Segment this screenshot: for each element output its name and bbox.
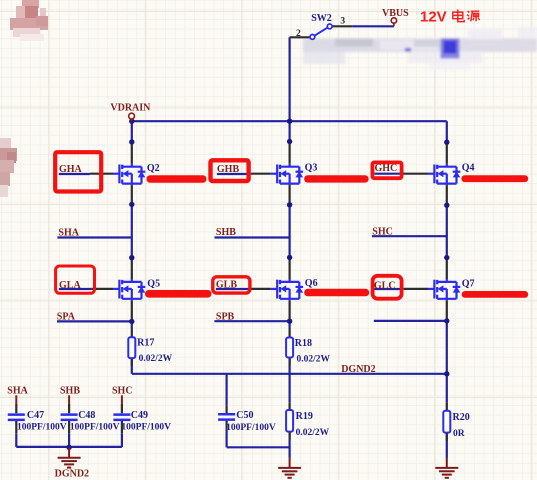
resistor R17 — [128, 337, 135, 358]
svg-text:R20: R20 — [453, 412, 470, 423]
svg-text:GHA: GHA — [59, 164, 83, 175]
svg-text:DGND2: DGND2 — [55, 469, 89, 480]
junction Q2 source — [129, 202, 134, 207]
svg-text:12V: 12V — [420, 9, 447, 26]
wire phase B mid — [289, 205, 291, 258]
port stub SHA (C47) — [15, 395, 17, 403]
wire SHB — [215, 236, 290, 238]
wire phase A column upper — [131, 121, 133, 142]
svg-text:100PF/100V: 100PF/100V — [17, 422, 67, 432]
transistor Q6 — [271, 279, 303, 300]
pin R18 top/bottom — [289, 330, 291, 366]
wire VDRAIN bus — [132, 120, 447, 122]
svg-text:GLC: GLC — [374, 281, 396, 292]
capacitor C47 — [8, 415, 25, 420]
pin SW2-2 — [290, 36, 311, 38]
transistor Q3 — [271, 164, 303, 185]
svg-text:SHA: SHA — [7, 386, 28, 397]
pin Q2 gate — [90, 173, 113, 175]
wire C50 bottom — [227, 428, 290, 447]
wire phase B lower — [289, 321, 291, 440]
transistor Q2 — [113, 164, 145, 185]
svg-text:Q6: Q6 — [305, 278, 318, 289]
junction Q7 drain — [444, 255, 449, 260]
pin Q3 gate — [251, 173, 271, 175]
svg-text:R17: R17 — [137, 338, 154, 349]
wire SHA — [57, 236, 131, 238]
pin Q5 source — [131, 300, 133, 321]
pin C50 top/bottom — [226, 406, 228, 429]
junction Q6 drain — [287, 255, 292, 260]
junction SW2-bus — [287, 119, 292, 124]
wire phase A mid — [131, 204, 133, 257]
svg-text:Q2: Q2 — [147, 163, 160, 174]
redaction band top right — [303, 27, 537, 70]
svg-text:100PF/100V: 100PF/100V — [226, 423, 276, 433]
wire node SPC — [374, 320, 447, 322]
pin Q4 drain — [446, 142, 448, 164]
svg-text:C50: C50 — [236, 410, 253, 421]
transistor Q4 — [428, 164, 460, 185]
switch SW2 — [310, 24, 332, 39]
svg-text:100PF/100V: 100PF/100V — [121, 422, 171, 432]
pin Q7 drain — [446, 258, 448, 279]
svg-text:Q7: Q7 — [462, 278, 475, 289]
svg-text:Q4: Q4 — [462, 162, 475, 173]
svg-text:C49: C49 — [131, 410, 148, 421]
wire GHB label — [217, 173, 251, 175]
svg-text:0.02/2W: 0.02/2W — [296, 428, 330, 438]
highlight bar GHA-GHB row — [147, 175, 207, 183]
highlight bar GLB-GLC row — [304, 289, 369, 297]
pin C47 top/bottom — [15, 404, 17, 434]
pin R20 top/bottom — [446, 402, 448, 440]
wire DGND2 bus — [132, 373, 447, 375]
wire GHC label — [374, 173, 403, 175]
pin Q3 drain — [289, 142, 291, 164]
pin R19 top/bottom — [289, 402, 291, 439]
ground under R20 — [435, 458, 458, 478]
pin Q6 source — [289, 300, 291, 321]
power port VDRAIN — [129, 113, 135, 121]
junction VDRAIN-busA — [129, 119, 134, 124]
wire switch to VBUS — [352, 25, 394, 27]
wire GLC label — [374, 288, 404, 290]
power port VBUS — [391, 18, 396, 27]
annotation 12V power — [420, 9, 480, 26]
svg-text:SHC: SHC — [372, 227, 393, 238]
pin R17 top/bottom — [131, 330, 133, 366]
wire C48 bottom — [68, 433, 70, 447]
highlight box GLC — [373, 276, 402, 299]
pin Q4 source — [446, 185, 448, 205]
junction DGND2 R20 — [444, 371, 449, 376]
port stub SHC (C49) — [121, 395, 123, 403]
svg-text:VBUS: VBUS — [382, 8, 409, 19]
pin C49 top/bottom — [121, 404, 123, 434]
svg-text:Q3: Q3 — [305, 163, 318, 174]
svg-text:C48: C48 — [78, 410, 95, 421]
wire R20 to ground — [446, 440, 448, 458]
svg-text:R19: R19 — [296, 411, 313, 422]
svg-text:SHB: SHB — [216, 227, 236, 238]
svg-text:SPA: SPA — [57, 311, 76, 322]
wire C49 bottom — [121, 433, 123, 447]
svg-text:100PF/100V: 100PF/100V — [70, 422, 120, 432]
svg-text:2: 2 — [296, 29, 301, 39]
wire GLB label — [216, 288, 250, 290]
wire phase C lower — [446, 321, 448, 441]
pin SW2-3 — [332, 25, 352, 27]
capacitor C48 — [61, 415, 78, 420]
junction Q4 drain — [444, 140, 449, 145]
pin Q6 drain — [289, 258, 291, 280]
pin C48 top/bottom — [68, 404, 70, 434]
highlight box GHA — [55, 152, 101, 191]
svg-text:SW2: SW2 — [311, 13, 332, 24]
junction Q7 source — [444, 318, 449, 323]
svg-text:SPB: SPB — [216, 311, 235, 322]
wire SW2 pin2 drop to bus — [289, 37, 291, 121]
pin Q6 gate — [249, 288, 270, 290]
wire phase B column upper — [289, 121, 291, 141]
pin Q7 source — [446, 300, 448, 321]
svg-text:SHB: SHB — [60, 386, 80, 397]
pin Q7 gate — [404, 288, 428, 290]
svg-text:GHC: GHC — [375, 163, 398, 174]
pin Q2 source — [131, 185, 133, 204]
highlight bar GHB-GHC row — [304, 175, 368, 182]
junction Q5 source SPA — [129, 319, 134, 324]
transistor Q7 — [428, 279, 460, 300]
capacitor C50 — [218, 414, 235, 419]
svg-text:3: 3 — [340, 17, 345, 27]
port stub SHB (C48) — [68, 395, 70, 403]
wire SPB — [214, 320, 289, 322]
redaction blob top-left — [10, 0, 48, 41]
wire SPA — [57, 320, 132, 322]
wire phase C column upper — [446, 121, 448, 142]
svg-text:GLB: GLB — [216, 280, 237, 291]
svg-text:0.02/2W: 0.02/2W — [139, 354, 173, 364]
junction Q2 drain — [129, 139, 134, 144]
svg-text:VDRAIN: VDRAIN — [110, 102, 151, 113]
svg-text:GHB: GHB — [217, 164, 240, 175]
highlight box GHC — [372, 162, 401, 178]
pin Q5 gate — [91, 288, 113, 290]
resistor R18 — [286, 338, 293, 358]
junction Q4 source — [444, 203, 449, 208]
highlight bar right of Q4 — [461, 175, 528, 182]
wire phase C mid — [446, 205, 448, 257]
wire SHC — [372, 235, 447, 237]
ground under R19 — [278, 458, 301, 478]
junction Q3 source — [287, 202, 292, 207]
highlight box GLB — [213, 277, 250, 293]
pin Q3 source — [289, 185, 291, 205]
pin Q5 drain — [131, 258, 133, 279]
svg-text:0R: 0R — [453, 429, 465, 439]
highlight bar right of Q7 — [462, 291, 529, 298]
svg-text:SHC: SHC — [112, 386, 133, 397]
junction Q6 source SPB — [287, 319, 292, 324]
svg-text:GLA: GLA — [59, 280, 81, 291]
wire C47 bottom — [15, 433, 17, 447]
svg-text:DGND2: DGND2 — [341, 364, 375, 375]
capacitor C49 — [113, 415, 130, 420]
highlight bar GLA-GLB row — [145, 290, 212, 298]
svg-text:SHA: SHA — [58, 227, 79, 238]
svg-text:C47: C47 — [27, 410, 44, 421]
wire phase A lower — [131, 322, 133, 374]
resistor R19 — [286, 410, 293, 432]
wire GLA label — [59, 288, 91, 290]
transistor Q5 — [113, 279, 145, 300]
wire caps ground bus — [16, 446, 122, 448]
junction caps ground — [66, 445, 71, 450]
junction Q3 drain — [287, 139, 292, 144]
redaction blob left edge — [0, 138, 17, 197]
wire GHA label — [59, 173, 90, 175]
pin Q4 gate — [404, 173, 429, 175]
svg-text:Q5: Q5 — [147, 279, 160, 290]
pin Q2 drain — [131, 142, 133, 164]
ground DGND2 under C48 — [58, 447, 81, 467]
resistor R20 — [443, 411, 450, 433]
wire C50 top — [226, 374, 228, 406]
highlight box GHB — [211, 160, 249, 181]
highlight box GLA — [56, 266, 95, 293]
svg-text:R18: R18 — [295, 338, 312, 349]
wire R19 to ground — [289, 440, 291, 458]
junction Q5 drain — [129, 255, 134, 260]
svg-text:0.02/2W: 0.02/2W — [297, 354, 331, 364]
